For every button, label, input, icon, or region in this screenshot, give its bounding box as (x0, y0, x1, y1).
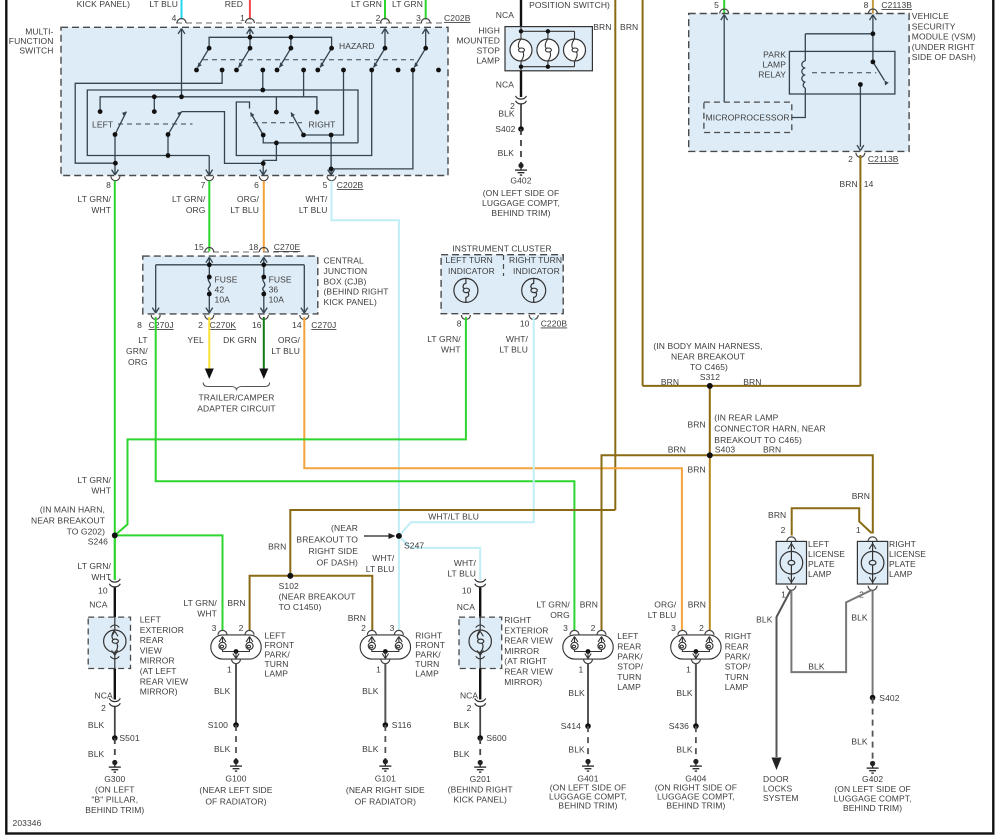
svg-text:LOCKS: LOCKS (763, 784, 793, 794)
svg-text:LT BLU: LT BLU (299, 205, 328, 215)
svg-text:2: 2 (239, 623, 244, 633)
svg-text:TO C1450): TO C1450) (279, 602, 322, 612)
svg-text:LT GRN: LT GRN (392, 0, 423, 9)
svg-text:S403: S403 (715, 444, 735, 454)
svg-text:LT GRN/: LT GRN/ (78, 561, 112, 571)
svg-text:S312: S312 (700, 372, 720, 382)
svg-text:1: 1 (376, 665, 381, 675)
svg-text:G402: G402 (862, 774, 883, 784)
svg-text:LT BLU: LT BLU (499, 345, 528, 355)
svg-text:HAZARD: HAZARD (339, 41, 375, 51)
svg-text:NCA: NCA (95, 690, 113, 700)
svg-text:S246: S246 (88, 537, 108, 547)
svg-text:"B" PILLAR,: "B" PILLAR, (91, 795, 138, 805)
svg-text:BRN: BRN (687, 420, 705, 430)
svg-text:5: 5 (323, 180, 328, 190)
svg-text:3: 3 (212, 623, 217, 633)
svg-text:STOP/: STOP/ (617, 662, 643, 672)
svg-text:G100: G100 (225, 774, 246, 784)
svg-text:ORG/: ORG/ (278, 335, 301, 345)
svg-text:ORG/: ORG/ (237, 194, 260, 204)
svg-text:INDICATOR: INDICATOR (513, 266, 560, 276)
svg-text:(NEAR RIGHT SIDE: (NEAR RIGHT SIDE (346, 785, 425, 795)
svg-text:EXTERIOR: EXTERIOR (504, 625, 548, 635)
svg-text:TO G202): TO G202) (67, 527, 106, 537)
svg-text:ORG: ORG (128, 357, 148, 367)
svg-text:2: 2 (361, 623, 366, 633)
svg-text:STOP/: STOP/ (725, 662, 751, 672)
svg-text:C2113B: C2113B (868, 154, 899, 164)
svg-text:RIGHT SIDE: RIGHT SIDE (309, 546, 359, 556)
svg-text:(AT LEFT: (AT LEFT (140, 666, 177, 676)
svg-text:MIRROR): MIRROR) (140, 687, 178, 697)
svg-text:WHT/: WHT/ (372, 553, 395, 563)
svg-text:18: 18 (249, 242, 259, 252)
svg-text:C202B: C202B (444, 13, 471, 23)
svg-text:2: 2 (848, 154, 853, 164)
svg-text:PARK/: PARK/ (617, 652, 643, 662)
svg-text:S247: S247 (404, 541, 424, 551)
svg-text:BRN: BRN (593, 22, 611, 32)
svg-text:MICROPROCESSOR: MICROPROCESSOR (706, 113, 790, 123)
svg-text:NCA: NCA (496, 80, 514, 90)
svg-text:SECURITY: SECURITY (912, 21, 956, 31)
svg-text:LT GRN/: LT GRN/ (78, 194, 112, 204)
svg-text:10: 10 (520, 319, 530, 329)
svg-text:BRN: BRN (268, 542, 286, 552)
svg-text:MULTI-: MULTI- (25, 27, 53, 37)
svg-text:MODULE (VSM): MODULE (VSM) (912, 32, 976, 42)
svg-text:(BEHIND RIGHT: (BEHIND RIGHT (448, 784, 513, 794)
svg-text:10A: 10A (215, 295, 231, 305)
svg-text:FUNCTION: FUNCTION (9, 36, 54, 46)
svg-text:BEHIND TRIM): BEHIND TRIM) (491, 208, 550, 218)
svg-text:G201: G201 (470, 774, 491, 784)
svg-text:PARK: PARK (763, 50, 786, 60)
svg-text:S436: S436 (669, 721, 689, 731)
svg-text:REAR: REAR (617, 641, 641, 651)
svg-text:KICK PANEL): KICK PANEL) (454, 795, 507, 805)
svg-text:DK GRN: DK GRN (223, 335, 257, 345)
svg-text:14: 14 (864, 179, 874, 189)
svg-text:1: 1 (686, 665, 691, 675)
svg-text:LT BLU: LT BLU (447, 569, 476, 579)
svg-text:LAMP: LAMP (889, 569, 913, 579)
svg-text:NCA: NCA (496, 10, 514, 20)
svg-text:BLK: BLK (214, 686, 231, 696)
svg-text:TURN: TURN (617, 672, 641, 682)
svg-text:LEFT: LEFT (808, 539, 829, 549)
svg-text:BRN: BRN (743, 377, 761, 387)
svg-text:PARK/: PARK/ (725, 652, 751, 662)
svg-text:BRN: BRN (768, 510, 786, 520)
svg-text:C220B: C220B (541, 319, 568, 329)
svg-text:42: 42 (215, 285, 225, 295)
svg-text:LT GRN/: LT GRN/ (427, 334, 461, 344)
svg-text:C202B: C202B (337, 180, 364, 190)
svg-text:KICK PANEL): KICK PANEL) (324, 297, 377, 307)
svg-text:BLK: BLK (568, 688, 585, 698)
svg-text:S501: S501 (119, 733, 139, 743)
svg-text:TRAILER/CAMPER: TRAILER/CAMPER (198, 393, 274, 403)
svg-text:2: 2 (591, 623, 596, 633)
svg-text:G402: G402 (510, 176, 531, 186)
svg-text:LEFT: LEFT (617, 631, 638, 641)
svg-text:OF RADIATOR): OF RADIATOR) (205, 797, 266, 807)
svg-text:WHT/: WHT/ (305, 194, 328, 204)
svg-text:TO C465): TO C465) (690, 362, 728, 372)
svg-text:NEAR BREAKOUT: NEAR BREAKOUT (31, 516, 105, 526)
svg-text:MIRROR): MIRROR) (504, 677, 542, 687)
svg-text:WHT/: WHT/ (454, 558, 477, 568)
svg-text:LICENSE: LICENSE (889, 549, 926, 559)
svg-text:BLK: BLK (214, 744, 231, 754)
svg-text:WHT: WHT (91, 486, 111, 496)
svg-text:C270E: C270E (274, 242, 301, 252)
svg-text:(UNDER RIGHT: (UNDER RIGHT (912, 42, 975, 52)
svg-text:BLK: BLK (362, 744, 379, 754)
svg-text:BRN: BRN (687, 465, 705, 475)
svg-text:S102: S102 (279, 581, 299, 591)
svg-text:TURN: TURN (415, 659, 439, 669)
svg-text:SWITCH: SWITCH (19, 46, 53, 56)
svg-text:LAMP: LAMP (476, 56, 500, 66)
svg-text:YEL: YEL (187, 335, 204, 345)
svg-text:S116: S116 (392, 720, 412, 730)
svg-text:DOOR: DOOR (763, 774, 789, 784)
svg-text:NCA: NCA (460, 690, 478, 700)
svg-text:OF RADIATOR): OF RADIATOR) (355, 797, 416, 807)
svg-text:LEFT: LEFT (140, 615, 161, 625)
svg-text:REAR VIEW: REAR VIEW (504, 667, 553, 677)
svg-text:ORG: ORG (550, 610, 570, 620)
svg-text:RELAY: RELAY (758, 70, 786, 80)
svg-text:LAMP: LAMP (762, 60, 786, 70)
svg-text:8: 8 (864, 0, 869, 10)
svg-text:BLK: BLK (808, 662, 825, 672)
svg-text:BRN: BRN (763, 444, 781, 454)
svg-text:LEFT: LEFT (265, 630, 286, 640)
svg-text:RIGHT TURN: RIGHT TURN (509, 255, 562, 265)
svg-text:S402: S402 (879, 693, 899, 703)
svg-text:WHT: WHT (441, 345, 461, 355)
svg-text:SIDE OF DASH): SIDE OF DASH) (912, 52, 976, 62)
svg-text:LEFT: LEFT (92, 120, 113, 130)
svg-text:REAR: REAR (725, 641, 749, 651)
svg-text:S100: S100 (208, 720, 228, 730)
svg-text:BRN: BRN (348, 613, 366, 623)
svg-text:(BEHIND RIGHT: (BEHIND RIGHT (324, 287, 389, 297)
svg-text:PARK/: PARK/ (265, 650, 291, 660)
svg-text:LICENSE: LICENSE (808, 549, 845, 559)
svg-text:REAR VIEW: REAR VIEW (140, 676, 189, 686)
svg-text:TURN: TURN (265, 659, 289, 669)
svg-text:1: 1 (578, 665, 583, 675)
svg-text:G300: G300 (104, 774, 125, 784)
svg-text:BLK: BLK (676, 688, 693, 698)
svg-text:ORG: ORG (186, 205, 206, 215)
svg-text:LAMP: LAMP (617, 682, 641, 692)
svg-text:(NEAR: (NEAR (331, 523, 358, 533)
svg-text:PLATE: PLATE (889, 559, 916, 569)
svg-text:36: 36 (269, 285, 279, 295)
svg-text:2: 2 (376, 13, 381, 23)
svg-text:LUGGAGE COMPT,: LUGGAGE COMPT, (482, 198, 560, 208)
svg-text:(ON LEFT: (ON LEFT (95, 784, 135, 794)
svg-text:(NEAR BREAKOUT: (NEAR BREAKOUT (279, 592, 356, 602)
svg-text:3: 3 (416, 13, 421, 23)
svg-text:BLK: BLK (453, 720, 470, 730)
svg-text:VIEW: VIEW (140, 645, 162, 655)
svg-text:S600: S600 (486, 733, 506, 743)
svg-text:BREAKOUT TO: BREAKOUT TO (296, 535, 358, 545)
svg-text:FRONT: FRONT (265, 640, 295, 650)
svg-text:LEFT TURN: LEFT TURN (446, 255, 493, 265)
svg-text:BEHIND TRIM): BEHIND TRIM) (85, 805, 144, 815)
svg-text:3: 3 (563, 623, 568, 633)
svg-text:LT BLU: LT BLU (366, 564, 395, 574)
svg-text:LT GRN: LT GRN (351, 0, 382, 9)
svg-text:LT BLU: LT BLU (648, 610, 677, 620)
svg-text:(IN MAIN HARN,: (IN MAIN HARN, (40, 505, 105, 515)
svg-text:MOUNTED: MOUNTED (456, 36, 500, 46)
svg-text:LAMP: LAMP (415, 669, 439, 679)
svg-text:SYSTEM: SYSTEM (763, 793, 799, 803)
svg-text:NCA: NCA (89, 600, 107, 610)
svg-text:BLK: BLK (851, 737, 868, 747)
svg-text:1: 1 (240, 13, 245, 23)
svg-text:BEHIND TRIM): BEHIND TRIM) (843, 803, 902, 813)
svg-text:LAMP: LAMP (265, 669, 289, 679)
svg-text:RED: RED (225, 0, 243, 9)
svg-text:FRONT: FRONT (415, 640, 445, 650)
svg-text:BLK: BLK (851, 613, 868, 623)
svg-text:WHT: WHT (91, 572, 111, 582)
svg-text:(AT RIGHT: (AT RIGHT (504, 656, 547, 666)
svg-text:10: 10 (462, 586, 472, 596)
svg-text:RIGHT: RIGHT (725, 631, 752, 641)
svg-text:ORG/: ORG/ (654, 600, 677, 610)
svg-text:PARK/: PARK/ (415, 650, 441, 660)
svg-text:S402: S402 (495, 124, 515, 134)
svg-text:CONNECTOR HARN, NEAR: CONNECTOR HARN, NEAR (714, 424, 825, 434)
svg-text:LAMP: LAMP (808, 569, 832, 579)
svg-text:BLK: BLK (676, 745, 693, 755)
svg-text:NCA: NCA (457, 602, 475, 612)
svg-text:BRN: BRN (839, 179, 857, 189)
svg-text:LAMP: LAMP (725, 682, 749, 692)
svg-text:BRN: BRN (661, 377, 679, 387)
svg-text:FUSE: FUSE (215, 275, 238, 285)
svg-text:INDICATOR: INDICATOR (448, 266, 495, 276)
svg-text:NEAR BREAKOUT: NEAR BREAKOUT (671, 352, 745, 362)
svg-text:2: 2 (101, 703, 106, 713)
svg-text:STOP: STOP (477, 46, 501, 56)
svg-text:BLK: BLK (88, 720, 105, 730)
svg-text:S414: S414 (561, 721, 581, 731)
svg-text:6: 6 (254, 180, 259, 190)
svg-text:RIGHT: RIGHT (415, 630, 442, 640)
svg-text:203346: 203346 (13, 818, 42, 828)
svg-text:10A: 10A (269, 295, 285, 305)
svg-text:8: 8 (106, 180, 111, 190)
svg-text:8: 8 (137, 320, 142, 330)
svg-text:OF DASH): OF DASH) (317, 558, 358, 568)
svg-text:FUSE: FUSE (269, 275, 292, 285)
svg-text:RIGHT: RIGHT (889, 539, 916, 549)
svg-text:JUNCTION: JUNCTION (324, 266, 368, 276)
svg-text:INSTRUMENT CLUSTER: INSTRUMENT CLUSTER (452, 244, 551, 254)
svg-text:PLATE: PLATE (808, 559, 835, 569)
svg-text:BRN: BRN (688, 600, 706, 610)
svg-text:ADAPTER CIRCUIT: ADAPTER CIRCUIT (197, 404, 275, 414)
svg-text:15: 15 (194, 242, 204, 252)
svg-text:REAR VIEW: REAR VIEW (504, 636, 553, 646)
svg-text:BLK: BLK (362, 686, 379, 696)
svg-text:5: 5 (714, 0, 719, 10)
svg-text:VEHICLE: VEHICLE (912, 11, 949, 21)
svg-text:(ON LEFT SIDE OF: (ON LEFT SIDE OF (483, 188, 560, 198)
svg-text:2: 2 (198, 320, 203, 330)
svg-text:BLK: BLK (498, 109, 515, 119)
svg-text:3: 3 (671, 623, 676, 633)
svg-text:2: 2 (699, 623, 704, 633)
svg-text:POSITION SWITCH): POSITION SWITCH) (529, 0, 610, 10)
svg-text:2: 2 (781, 525, 786, 535)
svg-text:KICK PANEL): KICK PANEL) (77, 0, 130, 9)
svg-text:WHT/: WHT/ (506, 334, 529, 344)
svg-text:LT BLU: LT BLU (271, 346, 300, 356)
svg-text:1: 1 (856, 525, 861, 535)
svg-text:C2113B: C2113B (881, 0, 912, 10)
svg-text:WHT/LT BLU: WHT/LT BLU (428, 512, 479, 522)
svg-text:BOX (CJB): BOX (CJB) (324, 276, 367, 286)
svg-text:8: 8 (457, 319, 462, 329)
svg-text:(ON LEFT SIDE OF: (ON LEFT SIDE OF (834, 784, 911, 794)
svg-text:LT GRN/: LT GRN/ (536, 600, 570, 610)
svg-text:BLK: BLK (568, 745, 585, 755)
svg-text:16: 16 (252, 320, 262, 330)
svg-text:MIRROR: MIRROR (504, 646, 539, 656)
svg-text:EXTERIOR: EXTERIOR (140, 625, 184, 635)
svg-text:LT GRN/: LT GRN/ (78, 475, 112, 485)
svg-text:REAR: REAR (140, 635, 164, 645)
svg-text:2: 2 (467, 703, 472, 713)
svg-text:BRN: BRN (580, 600, 598, 610)
svg-text:LT GRN/: LT GRN/ (183, 598, 217, 608)
svg-text:MIRROR: MIRROR (140, 656, 175, 666)
svg-text:RIGHT: RIGHT (309, 120, 336, 130)
svg-text:CENTRAL: CENTRAL (324, 256, 365, 266)
svg-text:RIGHT: RIGHT (504, 615, 531, 625)
svg-text:LUGGAGE COMPT,: LUGGAGE COMPT, (834, 794, 912, 804)
svg-text:BRN: BRN (620, 22, 638, 32)
svg-text:(IN REAR LAMP: (IN REAR LAMP (714, 413, 778, 423)
svg-text:1: 1 (227, 665, 232, 675)
svg-text:14: 14 (292, 320, 302, 330)
svg-text:WHT: WHT (197, 609, 217, 619)
svg-text:BEHIND TRIM): BEHIND TRIM) (558, 801, 617, 811)
svg-text:HIGH: HIGH (478, 26, 500, 36)
svg-text:BLK: BLK (88, 749, 105, 759)
svg-text:TURN: TURN (725, 672, 749, 682)
svg-text:BRN: BRN (852, 491, 870, 501)
svg-text:BLK: BLK (453, 749, 470, 759)
svg-text:WHT: WHT (91, 205, 111, 215)
svg-text:C270J: C270J (311, 320, 336, 330)
svg-text:BRN: BRN (227, 598, 245, 608)
svg-text:G101: G101 (375, 774, 396, 784)
svg-text:10: 10 (98, 586, 108, 596)
svg-text:BEHIND TRIM): BEHIND TRIM) (666, 801, 725, 811)
svg-text:C270K: C270K (210, 320, 237, 330)
svg-text:BLK: BLK (498, 148, 515, 158)
svg-text:LT GRN/: LT GRN/ (172, 194, 206, 204)
svg-text:7: 7 (201, 180, 206, 190)
svg-text:3: 3 (390, 623, 395, 633)
svg-text:4: 4 (172, 13, 177, 23)
svg-text:LT: LT (138, 335, 148, 345)
svg-text:BRN: BRN (668, 444, 686, 454)
svg-text:C270J: C270J (149, 320, 174, 330)
svg-text:BLK: BLK (756, 615, 773, 625)
svg-text:(NEAR LEFT SIDE: (NEAR LEFT SIDE (199, 785, 272, 795)
svg-text:LT BLU: LT BLU (149, 0, 178, 9)
svg-text:(IN BODY MAIN HARNESS,: (IN BODY MAIN HARNESS, (653, 341, 762, 351)
svg-text:LT BLU: LT BLU (230, 205, 259, 215)
svg-text:GRN/: GRN/ (126, 346, 148, 356)
